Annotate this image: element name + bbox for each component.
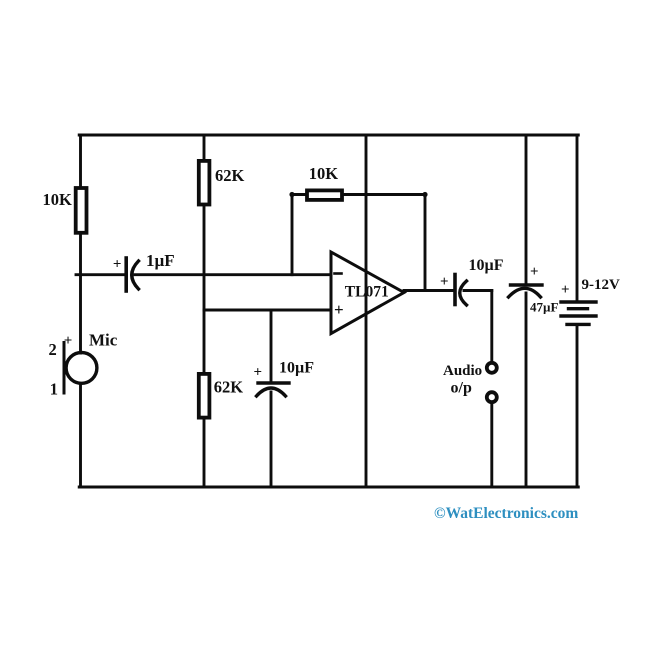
wire left rail middle <box>79 234 82 353</box>
svg-text:2: 2 <box>49 340 57 359</box>
capacitor C2 10µF <box>455 275 467 306</box>
wire C3 to bottom rail <box>525 293 528 487</box>
wire non-inverting line <box>204 309 331 312</box>
junction dot feedback left <box>289 192 294 197</box>
wire top rail <box>79 134 578 137</box>
wire C4 to bottom rail <box>270 392 273 487</box>
wire C4 column upper <box>270 310 273 381</box>
wire feedback right vertical <box>424 195 427 291</box>
svg-text:47µF: 47µF <box>530 300 558 315</box>
terminal audio output upper <box>487 363 497 373</box>
terminal audio output lower <box>487 392 497 402</box>
wire lower terminal to bottom rail <box>490 403 493 487</box>
junction dot feedback right <box>422 192 427 197</box>
capacitor C1 1µF <box>126 258 138 291</box>
svg-text:1: 1 <box>50 380 58 399</box>
svg-text:62K: 62K <box>214 378 244 397</box>
wire 62K column top <box>203 135 206 159</box>
svg-text:o/p: o/p <box>451 380 472 397</box>
wire left rail lower <box>79 384 82 488</box>
wire R3 to bottom rail <box>203 420 206 488</box>
op-amp U1 TL071 <box>331 252 404 334</box>
svg-text:62K: 62K <box>215 166 245 185</box>
svg-text:+: + <box>113 256 122 272</box>
svg-text:TL071: TL071 <box>345 284 389 301</box>
svg-text:Audio: Audio <box>443 363 482 379</box>
microphone MIC1 <box>64 343 97 394</box>
label U1 inverting input - <box>335 272 342 275</box>
battery BT1 <box>561 302 596 324</box>
svg-text:10µF: 10µF <box>469 257 504 274</box>
resistor R2 62K <box>199 161 210 205</box>
resistor R1 10K <box>76 188 87 233</box>
svg-text:+: + <box>530 264 539 280</box>
wire bottom rail <box>79 486 578 489</box>
wire supply column through op-amp <box>365 135 368 487</box>
svg-text:1µF: 1µF <box>146 251 175 270</box>
svg-text:10K: 10K <box>309 164 339 183</box>
svg-text:10µF: 10µF <box>279 360 314 377</box>
wire node inverting line left <box>76 273 124 276</box>
resistor R3 62K <box>199 374 210 418</box>
wire R2 to R3 <box>203 206 206 373</box>
svg-text:+: + <box>334 300 344 319</box>
wire left rail upper <box>79 135 82 187</box>
wire output drop <box>490 291 493 363</box>
svg-text:+: + <box>561 282 570 298</box>
wire C2 to output corner <box>464 289 492 292</box>
wire right rail bottom <box>576 325 579 487</box>
svg-text:+: + <box>254 364 263 380</box>
svg-text:+: + <box>64 333 73 349</box>
wire right rail top <box>576 135 579 301</box>
wire feedback left vertical <box>291 195 294 275</box>
wire R4 right lead <box>342 193 425 196</box>
resistor R4 10K <box>307 190 342 200</box>
wire op-amp output <box>404 289 453 292</box>
capacitor C3 47µF <box>509 285 543 297</box>
svg-text:©WatElectronics.com: ©WatElectronics.com <box>434 505 578 522</box>
wire C1 to op-amp inverting input <box>135 273 331 276</box>
svg-text:Mic: Mic <box>89 331 118 350</box>
svg-text:9-12V: 9-12V <box>582 277 620 293</box>
capacitor C4 10µF <box>257 383 290 396</box>
svg-text:10K: 10K <box>43 190 73 209</box>
wire 47µF column top <box>525 135 528 283</box>
svg-text:+: + <box>440 274 449 290</box>
wire R4 left lead <box>292 193 307 196</box>
